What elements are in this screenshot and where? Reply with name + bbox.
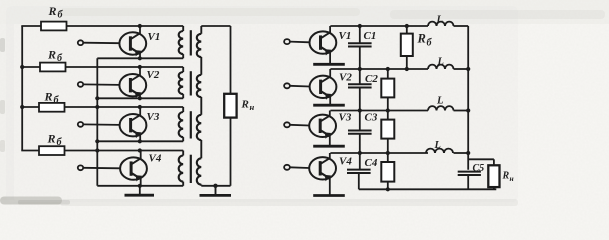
svg-text:R: R: [44, 90, 53, 104]
svg-text:C5: C5: [473, 163, 485, 174]
svg-text:C2: C2: [365, 73, 378, 85]
svg-text:R: R: [48, 4, 57, 18]
svg-text:L: L: [434, 140, 441, 151]
svg-text:L: L: [436, 96, 443, 107]
svg-text:L: L: [436, 15, 443, 26]
svg-text:R: R: [241, 99, 249, 111]
svg-text:R: R: [47, 48, 56, 62]
svg-text:н: н: [250, 102, 255, 112]
svg-text:V2: V2: [339, 72, 352, 84]
svg-text:C4: C4: [365, 157, 378, 169]
svg-text:L: L: [437, 57, 444, 68]
svg-text:R: R: [502, 171, 510, 182]
svg-text:R: R: [417, 32, 426, 46]
svg-text:V3: V3: [339, 112, 352, 124]
svg-text:C1: C1: [364, 30, 377, 42]
svg-text:V1: V1: [339, 30, 352, 42]
svg-text:V2: V2: [147, 69, 160, 81]
svg-text:V4: V4: [339, 156, 352, 168]
svg-text:V3: V3: [147, 111, 160, 123]
svg-text:н: н: [510, 174, 514, 183]
svg-text:C3: C3: [365, 112, 378, 124]
svg-text:R: R: [47, 132, 56, 146]
svg-text:V1: V1: [148, 31, 161, 43]
svg-text:V4: V4: [149, 153, 162, 165]
